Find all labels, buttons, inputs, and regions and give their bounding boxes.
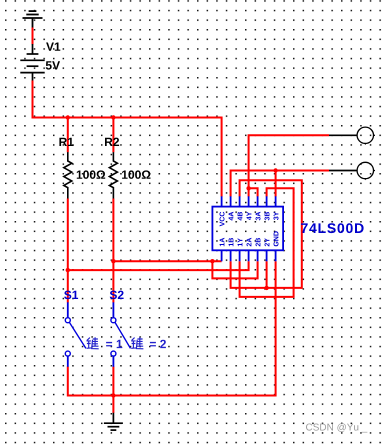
- label key glyph for S2 (jian): [131, 337, 143, 349]
- value R2 100ohm: [122, 170, 150, 179]
- junction S1 branch: [66, 268, 70, 272]
- junction branch to 2B: [210, 259, 214, 263]
- junction R1 / 5V rail: [66, 115, 70, 119]
- wire 1B to 2Y to 4B (Qbar net): [231, 180, 302, 288]
- ground GND1 (top): [23, 11, 43, 28]
- wire GND pin to bottom rail: [68, 261, 276, 395]
- wire 4Y junction to pin 3A: [249, 188, 258, 196]
- output connector 1: [357, 127, 375, 145]
- label R2: [105, 138, 119, 146]
- wire 4A to output 2: [231, 171, 329, 197]
- wire 1Y to 3B (Q net): [240, 188, 294, 297]
- wire 2Y down: [266, 261, 268, 288]
- resistor R1: [64, 152, 72, 199]
- junction S2 branch: [111, 259, 115, 263]
- wire 5V rail: battery to VCC pin: [33, 81, 222, 197]
- junction ground / bottom rail: [111, 393, 115, 397]
- junction 3Y / output2 net: [273, 168, 277, 172]
- battery V1: [20, 44, 44, 81]
- output connector 2 black lead: [329, 170, 357, 172]
- output connector 2: [357, 162, 375, 180]
- wire R2 to S2: [112, 199, 114, 303]
- wire 4Y to output 1: [249, 135, 329, 196]
- label = 1 for S1: [106, 340, 122, 348]
- wire 5V rail to R2: [112, 118, 114, 153]
- label = 2 for S2: [150, 340, 166, 348]
- op IC 74LS00D body U1: [212, 207, 283, 251]
- IC pins bottom: [222, 250, 276, 261]
- junction 4Y / 3A: [246, 186, 250, 190]
- resistor R2: [109, 152, 117, 199]
- wire branch to pin 2B: [212, 261, 257, 278]
- wire 5V rail to R1: [67, 118, 69, 153]
- wire S1 branch to pin 2A: [68, 261, 249, 270]
- wire R1 to S1: [67, 199, 69, 303]
- junction R2 / 5V rail: [111, 115, 115, 119]
- junction 2Y / Qbar net: [264, 286, 268, 290]
- ground GND2 (bottom): [104, 413, 123, 430]
- label V1: [46, 43, 60, 51]
- IC pin labels bottom row: [220, 231, 279, 246]
- switch S2: [111, 302, 131, 367]
- label 5V: [46, 61, 60, 69]
- IC pin labels top row: [220, 212, 279, 227]
- wire 3Y up: [275, 171, 277, 197]
- switch S1: [65, 302, 86, 367]
- wire S2 branch to pin 1A: [113, 260, 221, 262]
- value R1 100ohm: [77, 170, 105, 179]
- IC pins top: [222, 196, 276, 206]
- label key glyph for S1 (jian): [87, 337, 99, 349]
- watermark CSDN: [306, 423, 367, 432]
- label R1: [59, 138, 73, 146]
- wire ground to battery: [32, 28, 34, 45]
- label 74LS00D: [301, 223, 364, 233]
- wire S2 bottom to ground: [112, 367, 114, 413]
- label S1: [64, 291, 78, 300]
- label S2: [110, 291, 124, 300]
- output connector 1 black lead: [329, 134, 357, 136]
